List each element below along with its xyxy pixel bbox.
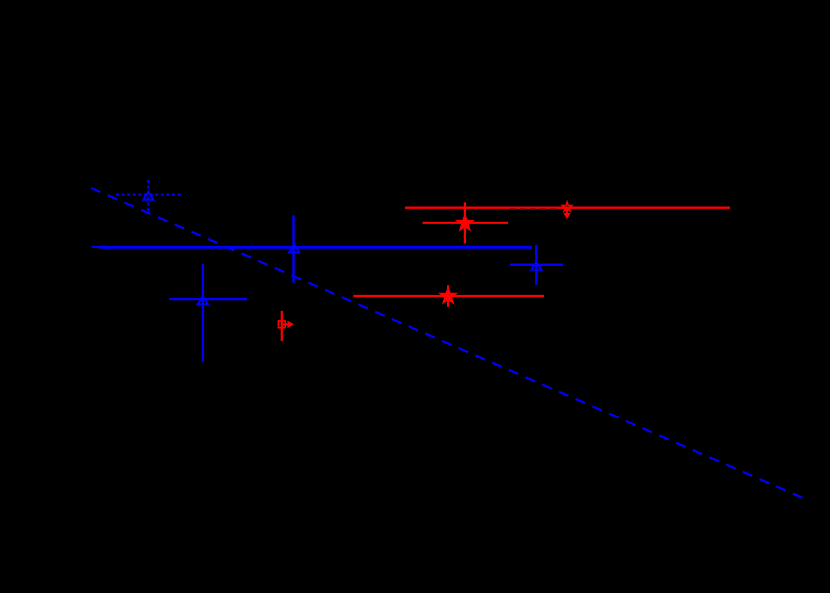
- red long horizontal line: [405, 206, 730, 208]
- red right arrow (lower limit) for Q1: [282, 323, 289, 325]
- triangle T3 horizontal error bar: [510, 263, 563, 266]
- red open star S1: [562, 202, 571, 211]
- triangle T4 marker: [198, 296, 208, 304]
- red square Q1 marker (open): [278, 321, 285, 328]
- red star S2 marker (filled): [457, 215, 473, 230]
- blue dashed trend line: [91, 188, 803, 498]
- red square Q1 vertical error bar: [281, 311, 283, 341]
- red star S2 vertical error bar: [464, 202, 466, 243]
- red down arrow (upper limit) for S1: [566, 209, 568, 214]
- dark red dashed overlap segment: [510, 208, 556, 210]
- triangle T2 marker: [289, 245, 299, 253]
- blue solid horizontal line (lower overlap): [99, 247, 532, 249]
- red star S3 marker (filled): [440, 288, 456, 303]
- triangle T3 marker: [531, 262, 541, 270]
- triangle T1 dotted horizontal error bar: [116, 194, 182, 196]
- red star S3 vertical error bar: [447, 285, 449, 307]
- triangle T1 dotted vertical error bar: [147, 180, 149, 212]
- red star S3 horizontal error bar: [353, 295, 544, 297]
- triangle T4 horizontal error bar: [169, 298, 247, 300]
- triangle T3 vertical error bar: [535, 245, 538, 285]
- triangle T4 vertical error bar: [202, 264, 204, 362]
- triangle T1 marker: [143, 192, 153, 200]
- blue solid horizontal line (upper, long): [92, 246, 533, 248]
- red star S2 horizontal error bar: [423, 222, 509, 224]
- triangle T2 vertical error bar: [292, 215, 294, 282]
